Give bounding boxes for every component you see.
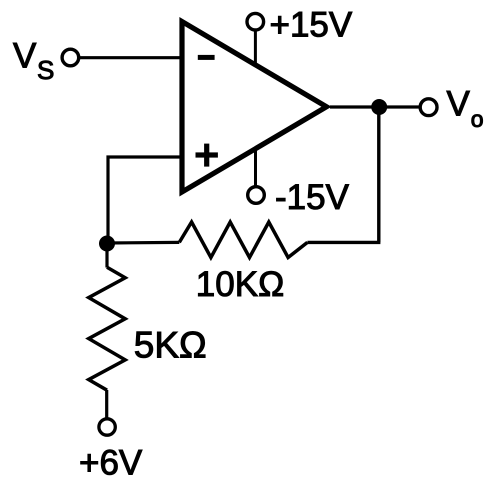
svg-text:+6V: +6V bbox=[79, 443, 143, 482]
svg-text:5KΩ: 5KΩ bbox=[134, 324, 207, 365]
svg-text:10KΩ: 10KΩ bbox=[196, 265, 284, 304]
wire: +15V supply to op-amp top bbox=[254, 31, 257, 65]
resistor R1 10K (feedback) bbox=[179, 222, 307, 258]
svg-text:V: V bbox=[447, 84, 471, 123]
wire: op-amp output to Vo terminal bbox=[330, 105, 419, 108]
resistor R2 5K bbox=[89, 267, 126, 390]
-15V supply terminal bbox=[248, 187, 265, 204]
svg-text:S: S bbox=[37, 55, 54, 85]
wire: non-inverting input run (horizontal + vertical down to node A) bbox=[108, 157, 182, 243]
op-amp U1 bbox=[182, 22, 327, 193]
wire: node A down to resistor R2 top lead bbox=[105, 244, 108, 268]
node A junction dot bbox=[99, 236, 115, 252]
wire: output node down to feedback resistor bbox=[377, 107, 380, 242]
output terminal Vo bbox=[420, 99, 437, 116]
wire: Vs terminal to op-amp inverting input bbox=[80, 56, 183, 59]
+15V supply terminal bbox=[247, 13, 264, 30]
wire: -15V supply to op-amp bottom bbox=[254, 149, 257, 186]
wire: node A to resistor R1 left lead bbox=[107, 241, 179, 245]
+6V supply terminal bbox=[99, 419, 115, 435]
wire: feedback corner to resistor R1 right lead bbox=[307, 241, 380, 244]
node: output junction bbox=[371, 99, 387, 115]
wire: resistor R2 bottom lead to +6V terminal bbox=[105, 390, 108, 418]
svg-text:-15V: -15V bbox=[275, 178, 350, 217]
input terminal Vs bbox=[62, 49, 79, 66]
svg-text:V: V bbox=[13, 37, 37, 76]
svg-text:o: o bbox=[471, 106, 484, 132]
svg-text:+15V: +15V bbox=[270, 6, 353, 45]
